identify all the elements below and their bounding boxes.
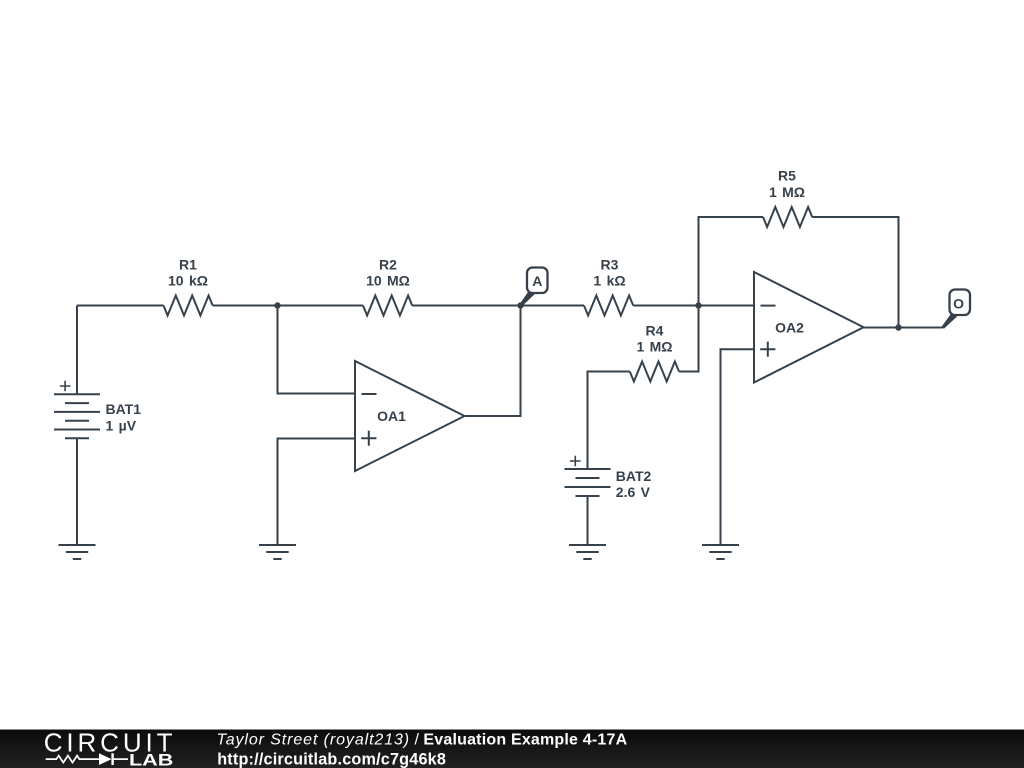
- logo LAB wordmark: [129, 751, 173, 768]
- svg-text:2.6 V: 2.6 V: [616, 484, 651, 500]
- resistor R1 zigzag: [164, 296, 213, 316]
- label R4: [646, 322, 664, 338]
- svg-text:1 µV: 1 µV: [106, 417, 137, 433]
- junction node A: [517, 302, 523, 308]
- battery BAT2 plus sign: [570, 456, 581, 467]
- node O flag letter: [953, 296, 964, 312]
- value 10 kOhm: [168, 273, 208, 289]
- wire R5 to output node: [812, 217, 898, 328]
- op-amp OA2 minus symbol: [761, 305, 776, 307]
- value 1 uV: [106, 417, 137, 433]
- op-amp OA2 plus symbol: [760, 342, 775, 357]
- label BAT1: [106, 401, 142, 417]
- ground OA1: [259, 545, 296, 559]
- logo resistor zigzag: [46, 756, 99, 763]
- svg-text:R5: R5: [778, 168, 796, 184]
- battery BAT1 plus sign: [60, 381, 71, 392]
- value 1 kOhm: [593, 273, 625, 289]
- junction output node: [895, 324, 901, 330]
- label R3: [601, 256, 619, 272]
- value 1 MOhm (R4): [636, 339, 672, 355]
- resistor R4 zigzag: [630, 362, 679, 382]
- op-amp OA1 triangle: [355, 361, 465, 471]
- svg-text:R2: R2: [379, 256, 397, 272]
- wire node1 to R2: [278, 305, 364, 307]
- ground BAT2: [569, 545, 606, 559]
- value 2.6 V: [616, 484, 651, 500]
- svg-text:1 kΩ: 1 kΩ: [593, 273, 625, 289]
- ground OA2: [702, 545, 739, 559]
- battery BAT1 plates: [54, 394, 100, 438]
- footer url line: [217, 750, 446, 768]
- svg-text:1 MΩ: 1 MΩ: [636, 339, 672, 355]
- wire R4 to BAT2: [588, 372, 630, 470]
- wire node1 to OA1 inverting input: [278, 306, 356, 394]
- wire R2 to node A: [412, 305, 520, 307]
- label R2: [379, 256, 397, 272]
- value 1 MOhm (R5): [769, 184, 805, 200]
- svg-text:O: O: [953, 296, 964, 312]
- svg-text:LAB: LAB: [129, 751, 173, 768]
- svg-text:R3: R3: [601, 256, 619, 272]
- op-amp OA1 plus symbol: [361, 431, 376, 446]
- label OA2: [775, 320, 804, 336]
- wire node A to R3: [521, 305, 585, 307]
- resistor R2 zigzag: [363, 296, 412, 316]
- svg-text:OA2: OA2: [775, 320, 804, 336]
- svg-text:BAT2: BAT2: [616, 468, 652, 484]
- label R1: [179, 256, 197, 272]
- wire node2 down to R4: [679, 306, 699, 372]
- svg-text:Taylor Street (royalt213) / Ev: Taylor Street (royalt213) / Evaluation E…: [217, 732, 628, 749]
- svg-text:1 MΩ: 1 MΩ: [769, 184, 805, 200]
- junction node1: [274, 302, 280, 308]
- wire node2 up to R5: [699, 217, 764, 306]
- wire R3 to node2: [633, 305, 698, 307]
- resistor R3 zigzag: [584, 296, 633, 316]
- svg-text:R4: R4: [646, 322, 664, 338]
- wire OA2 non-inverting input to ground: [721, 349, 755, 545]
- wire BAT1 positive lead: [76, 306, 78, 395]
- wire OA1 output to node A: [465, 306, 521, 417]
- wire BAT2 negative lead: [587, 496, 589, 545]
- svg-text:http://circuitlab.com/c7g46k8: http://circuitlab.com/c7g46k8: [217, 750, 446, 768]
- svg-text:10 MΩ: 10 MΩ: [366, 273, 410, 289]
- op-amp OA1 minus symbol: [362, 393, 377, 395]
- wire R1 to node1: [213, 305, 278, 307]
- battery BAT2 plates: [565, 469, 611, 496]
- resistor R5 zigzag: [763, 207, 812, 227]
- ground BAT1: [59, 545, 96, 559]
- node O flag box: [950, 290, 971, 316]
- svg-text:OA1: OA1: [377, 408, 406, 424]
- value 10 MOhm: [366, 273, 410, 289]
- svg-text:R1: R1: [179, 256, 197, 272]
- node O flag pointer: [942, 314, 957, 329]
- label R5: [778, 168, 796, 184]
- svg-text:10 kΩ: 10 kΩ: [168, 273, 208, 289]
- junction node2: [695, 302, 701, 308]
- node A flag pointer: [520, 291, 536, 306]
- footer title line: [217, 732, 628, 749]
- node A flag letter: [532, 273, 542, 289]
- node A flag box: [527, 268, 548, 294]
- svg-text:BAT1: BAT1: [106, 401, 142, 417]
- wire OA2 output: [864, 327, 944, 329]
- logo diode: [99, 753, 128, 765]
- op-amp OA2 triangle: [754, 272, 864, 383]
- logo CIRCUIT wordmark: [44, 728, 177, 758]
- label BAT2: [616, 468, 652, 484]
- wire BAT1 negative lead: [76, 438, 78, 545]
- footer bar: [0, 730, 1024, 768]
- wire main left segment: [77, 305, 164, 307]
- label OA1: [377, 408, 406, 424]
- wire OA1 non-inverting input to ground: [278, 439, 356, 546]
- wire node2 to OA2 minus: [699, 305, 755, 307]
- svg-text:A: A: [532, 273, 542, 289]
